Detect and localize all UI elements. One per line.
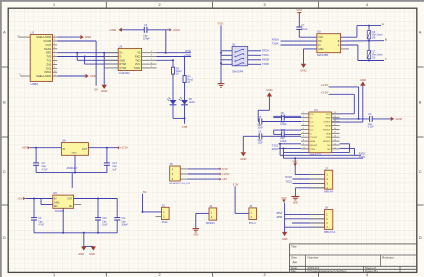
connector U1 bbox=[30, 30, 52, 86]
wire D+ net bbox=[57, 52, 118, 54]
IC U3 CH340G bbox=[118, 44, 141, 75]
capacitor C4 bbox=[143, 24, 150, 40]
capacitor C11 bbox=[114, 199, 128, 233]
svg-text:Cap: Cap bbox=[258, 140, 263, 142]
svg-text:GND: GND bbox=[72, 153, 77, 155]
svg-text:4: 4 bbox=[366, 3, 368, 7]
wire switch right row2 bbox=[248, 54, 261, 56]
svg-text:TXDA: TXDA bbox=[262, 54, 269, 57]
wire loopback upper bbox=[284, 144, 350, 158]
wire R2IN row bbox=[279, 147, 302, 149]
wire J7 pin2 bbox=[293, 178, 325, 180]
svg-text:16: 16 bbox=[334, 128, 336, 130]
wire U5 to net Y bbox=[341, 45, 384, 62]
svg-text:J7: J7 bbox=[325, 166, 328, 170]
power port VCC feeding J7 bbox=[292, 157, 298, 174]
wire EN tie bbox=[41, 199, 53, 205]
svg-text:U8: U8 bbox=[62, 139, 66, 143]
capacitor C7 bbox=[296, 14, 308, 37]
svg-text:SHELL/GND: SHELL/GND bbox=[36, 74, 51, 78]
svg-text:SHELL/GND: SHELL/GND bbox=[36, 35, 51, 39]
net label TXD bbox=[185, 53, 190, 57]
connector J3 bbox=[249, 204, 257, 220]
svg-text:XS2A: XS2A bbox=[162, 221, 169, 224]
svg-text:4: 4 bbox=[303, 124, 304, 126]
connector J6 bbox=[162, 203, 170, 219]
TVS U6 bbox=[367, 31, 383, 40]
capacitor C9 bbox=[333, 113, 391, 129]
svg-text:S1: S1 bbox=[232, 42, 236, 46]
power label VCC at J5 bbox=[220, 172, 230, 176]
svg-text:+3.3V: +3.3V bbox=[321, 90, 329, 94]
svg-text:EN: EN bbox=[54, 205, 58, 208]
svg-text:5V: 5V bbox=[94, 87, 98, 91]
svg-text:5V: 5V bbox=[143, 190, 147, 194]
svg-text:+3.3V: +3.3V bbox=[321, 83, 329, 87]
svg-text:Cap: Cap bbox=[112, 166, 117, 168]
svg-text:D+: D+ bbox=[119, 51, 123, 55]
label AMS1117 part bbox=[67, 166, 79, 170]
capacitor C3 bbox=[31, 199, 45, 233]
wire U5 RO row bbox=[281, 40, 317, 42]
wire J6 stub2 bbox=[156, 216, 162, 218]
svg-text:DI: DI bbox=[318, 44, 321, 47]
svg-text:Cap: Cap bbox=[280, 121, 285, 123]
svg-text:13: 13 bbox=[334, 140, 336, 142]
svg-text:J8: J8 bbox=[325, 206, 328, 210]
svg-text:U4: U4 bbox=[314, 108, 318, 112]
svg-text:GND: GND bbox=[293, 202, 298, 204]
power port feeding J8 bbox=[281, 196, 287, 227]
wire R3 to LED1 bbox=[172, 74, 174, 100]
svg-text:T2OUT: T2OUT bbox=[310, 137, 318, 139]
wire C6 to GND bbox=[242, 136, 244, 152]
svg-text:J6: J6 bbox=[162, 203, 165, 207]
net label Y bbox=[385, 57, 387, 61]
svg-text:B8B-XH-A: B8B-XH-A bbox=[324, 231, 335, 234]
svg-text:10uF: 10uF bbox=[258, 128, 264, 130]
svg-text:VCC: VCC bbox=[318, 36, 323, 39]
power label 5V bbox=[94, 87, 98, 91]
net label TXDB bbox=[262, 63, 269, 66]
connector J4 bbox=[209, 204, 217, 220]
svg-text:RTS#: RTS# bbox=[119, 62, 126, 66]
svg-text:GND: GND bbox=[326, 118, 331, 120]
svg-text:A: A bbox=[3, 31, 6, 35]
label J3 part bbox=[249, 222, 256, 225]
svg-text:TX1: TX1 bbox=[46, 58, 51, 62]
wire to GND arrow lower bbox=[103, 52, 105, 85]
svg-text:104pF: 104pF bbox=[121, 225, 128, 227]
wire RXD net from CH340 bbox=[157, 52, 192, 54]
svg-text:+5V: +5V bbox=[222, 177, 227, 181]
wire U4 left pin stubs bbox=[301, 112, 309, 149]
svg-text:C13: C13 bbox=[112, 162, 117, 165]
svg-text:SW-DIP4: SW-DIP4 bbox=[232, 70, 244, 74]
svg-text:B4B-XH: B4B-XH bbox=[324, 191, 333, 194]
resistor R4 bbox=[183, 76, 194, 84]
wire C7 to U5 VCC pin bbox=[299, 36, 317, 38]
svg-text:B: B bbox=[385, 37, 387, 41]
svg-text:4.7uF: 4.7uF bbox=[38, 225, 44, 227]
svg-text:MAX232: MAX232 bbox=[310, 153, 321, 157]
svg-text:17: 17 bbox=[334, 124, 336, 126]
svg-text:GND: GND bbox=[360, 78, 366, 82]
svg-text:J5: J5 bbox=[170, 162, 173, 166]
wire TXD to R4 bbox=[184, 57, 186, 76]
net label RXD bbox=[185, 49, 191, 53]
svg-text:C1+: C1+ bbox=[310, 114, 315, 116]
svg-text:104pF: 104pF bbox=[280, 124, 287, 126]
svg-text:TXD1: TXD1 bbox=[272, 144, 279, 147]
power port GND below J8 bbox=[282, 227, 288, 241]
svg-text:B: B bbox=[419, 101, 422, 105]
svg-text:RXDA: RXDA bbox=[262, 50, 269, 53]
svg-text:Number: Number bbox=[308, 255, 319, 259]
svg-text:GND: GND bbox=[119, 58, 125, 62]
svg-text:5: 5 bbox=[303, 128, 304, 130]
wire J8 pin2 bbox=[284, 218, 324, 220]
wire 3.3V to U4 vcc bbox=[329, 87, 360, 120]
svg-text:OUT: OUT bbox=[46, 43, 52, 47]
svg-text:TXDB: TXDB bbox=[262, 63, 269, 66]
svg-text:T2IN: T2IN bbox=[310, 149, 315, 151]
wire reg2 ground rail bbox=[34, 232, 117, 234]
net label TXD1 at J7 bbox=[285, 181, 292, 184]
capacitor C13 bbox=[104, 148, 118, 173]
svg-text:Cap: Cap bbox=[280, 138, 285, 140]
svg-text:U9: U9 bbox=[53, 191, 57, 195]
connector J7 bbox=[325, 166, 333, 190]
wire J5 pin2 bbox=[180, 173, 219, 175]
IC U9 XC6206 bbox=[53, 191, 74, 208]
svg-text:Title: Title bbox=[291, 244, 297, 248]
wire D- branch down bbox=[85, 57, 119, 65]
svg-text:NC: NC bbox=[327, 145, 331, 147]
wire J5 pin3 bbox=[180, 178, 219, 180]
svg-text:VCC: VCC bbox=[296, 8, 302, 12]
net label 485B at J8 bbox=[276, 216, 282, 219]
svg-text:OUT: OUT bbox=[67, 198, 73, 201]
wire rail to gnd arrows bbox=[83, 232, 94, 247]
power ground bar below J7 bbox=[291, 197, 299, 205]
wire USB shell to GND bbox=[57, 75, 85, 77]
svg-text:3.3V: 3.3V bbox=[233, 182, 239, 186]
wire reg2 gnd pin down bbox=[62, 208, 64, 233]
svg-text:RXD1: RXD1 bbox=[272, 148, 279, 151]
svg-text:T1OUT: T1OUT bbox=[323, 122, 331, 124]
wire U5 DI row bbox=[281, 44, 317, 46]
svg-text:+VCC: +VCC bbox=[172, 28, 181, 32]
svg-text:V-: V- bbox=[310, 133, 312, 135]
svg-text:TXD: TXD bbox=[217, 22, 223, 26]
svg-text:TXDA: TXDA bbox=[272, 42, 279, 45]
wire U5 GND row bbox=[304, 49, 317, 64]
svg-text:B4-HDR-P-2.54_1X3: B4-HDR-P-2.54_1X3 bbox=[170, 183, 191, 185]
wire CH340 left pin stubs bbox=[105, 53, 119, 68]
svg-text:USB2: USB2 bbox=[31, 82, 39, 86]
svg-text:Cap: Cap bbox=[42, 166, 47, 168]
svg-text:V3: V3 bbox=[137, 51, 141, 55]
svg-text:1uF: 1uF bbox=[112, 169, 117, 171]
svg-text:GND: GND bbox=[110, 28, 118, 32]
svg-text:3.3V: 3.3V bbox=[222, 167, 228, 171]
svg-text:R2OUT: R2OUT bbox=[310, 145, 318, 147]
svg-text:485B: 485B bbox=[276, 216, 282, 219]
power port GND at USB shell bbox=[85, 74, 96, 78]
svg-text:Cap: Cap bbox=[102, 221, 107, 223]
net label RXD1 at J7 bbox=[285, 176, 292, 179]
svg-text:RXDB: RXDB bbox=[262, 59, 269, 62]
svg-text:CH340G: CH340G bbox=[119, 71, 131, 75]
net label RXD1 on loop bbox=[359, 153, 366, 156]
net label RXDB bbox=[262, 59, 269, 62]
svg-text:10uF: 10uF bbox=[258, 143, 264, 145]
svg-text:OX1: OX1 bbox=[46, 66, 52, 70]
label XC6206 part bbox=[55, 209, 65, 213]
svg-text:TXD1: TXD1 bbox=[285, 181, 292, 184]
LED D5 bbox=[179, 97, 196, 104]
net label TXD1 left of U4 bbox=[272, 144, 279, 147]
svg-text:CTS#: CTS# bbox=[119, 66, 126, 70]
label J5 part bbox=[170, 183, 191, 185]
svg-text:R2IN: R2IN bbox=[310, 141, 315, 143]
svg-text:RXDA: RXDA bbox=[272, 38, 279, 41]
svg-text:C: C bbox=[419, 170, 422, 174]
capacitor C10 bbox=[95, 199, 108, 233]
svg-text:RXD: RXD bbox=[135, 54, 141, 58]
svg-text:+VCC: +VCC bbox=[222, 172, 230, 176]
svg-text:LED1: LED1 bbox=[189, 101, 196, 104]
svg-text:J3: J3 bbox=[249, 204, 252, 208]
svg-text:1: 1 bbox=[303, 112, 304, 114]
svg-text:TXD: TXD bbox=[135, 58, 140, 62]
power port GND above U4 right bbox=[360, 78, 366, 86]
svg-text:T2IN: T2IN bbox=[326, 137, 331, 139]
net label TXD1 on loop bbox=[359, 156, 366, 159]
svg-text:6: 6 bbox=[303, 132, 304, 134]
svg-text:MAX485: MAX485 bbox=[317, 53, 328, 57]
net label RXD1 left of U4 bbox=[272, 148, 279, 151]
wire U5 pin stub right bbox=[341, 48, 349, 50]
svg-text:15: 15 bbox=[334, 132, 336, 134]
label J7 part bbox=[324, 191, 333, 194]
svg-text:19: 19 bbox=[334, 116, 336, 118]
wire switch left stubs bbox=[221, 51, 232, 65]
svg-text:Y: Y bbox=[385, 57, 387, 61]
power label 3.3V at J3 bbox=[233, 182, 239, 186]
wire GND bar to U4 row4 bbox=[332, 86, 363, 122]
svg-text:Revision: Revision bbox=[382, 255, 394, 259]
net label 485A at J8 bbox=[276, 212, 282, 215]
svg-text:TXD1: TXD1 bbox=[359, 156, 366, 159]
svg-text:ZX0: ZX0 bbox=[46, 62, 51, 66]
svg-text:GND: GND bbox=[193, 235, 198, 237]
svg-text:R2OUT: R2OUT bbox=[323, 141, 331, 143]
wire D+ branch down bbox=[77, 53, 118, 61]
svg-text:NC: NC bbox=[327, 149, 331, 151]
svg-text:10uF: 10uF bbox=[102, 225, 108, 227]
wire J4 to GND bbox=[196, 213, 209, 228]
power port GND below C7 bbox=[300, 64, 306, 73]
svg-text:GND: GND bbox=[101, 89, 107, 93]
net label B bbox=[385, 37, 387, 41]
svg-text:8: 8 bbox=[303, 140, 304, 142]
label J8 part bbox=[324, 231, 335, 234]
svg-text:485A: 485A bbox=[276, 212, 282, 215]
svg-text:Drawn By:: Drawn By: bbox=[365, 269, 379, 273]
svg-text:10: 10 bbox=[303, 147, 305, 149]
wire J8 pin3 bbox=[292, 222, 325, 224]
wire CH340 right pin stubs bbox=[142, 51, 157, 68]
wire R4 to LED2 bbox=[184, 83, 186, 101]
net label TXD at switch bbox=[217, 22, 223, 26]
svg-text:IN: IN bbox=[63, 148, 66, 151]
svg-text:VTB: VTB bbox=[182, 125, 188, 129]
svg-text:GND: GND bbox=[396, 117, 402, 121]
svg-text:1: 1 bbox=[53, 273, 55, 277]
power label VCC above U5 bbox=[296, 8, 302, 14]
wire reg1 ground rail bbox=[36, 172, 107, 188]
wire D- net bbox=[57, 56, 118, 58]
svg-text:GND: GND bbox=[240, 157, 246, 161]
svg-text:GND: GND bbox=[85, 35, 91, 39]
power label 3.3V at J5 bbox=[220, 167, 228, 171]
power port GND above U4 left bbox=[266, 88, 272, 97]
svg-text:T1IN: T1IN bbox=[326, 133, 331, 135]
power label +VCC bbox=[169, 28, 181, 32]
svg-text:RXD1: RXD1 bbox=[285, 176, 292, 179]
wire reg1 gnd pin bbox=[74, 155, 76, 172]
wire GND to C4 bbox=[122, 29, 144, 31]
svg-text:3: 3 bbox=[263, 3, 265, 7]
wire CH340 pin to R3 bbox=[157, 59, 175, 67]
svg-text:J4: J4 bbox=[209, 204, 212, 208]
capacitor C12 lower bbox=[274, 129, 301, 143]
svg-text:Cap: Cap bbox=[38, 221, 43, 223]
svg-text:C2-: C2- bbox=[310, 129, 314, 131]
power port GND below USB wires bbox=[101, 85, 107, 93]
svg-text:1K: 1K bbox=[176, 73, 179, 76]
wire LEDs to VTB bbox=[173, 105, 186, 124]
svg-text:U3: U3 bbox=[119, 44, 123, 48]
wire 3.3V lower to U4 bbox=[329, 94, 355, 114]
wire USB shell bottom pin bbox=[19, 74, 31, 76]
svg-text:OUT: OUT bbox=[82, 148, 88, 151]
IC U8 AMS1117 bbox=[61, 139, 88, 156]
header J5 bbox=[170, 162, 181, 181]
svg-text:14: 14 bbox=[334, 136, 336, 138]
svg-text:2: 2 bbox=[158, 3, 160, 7]
wire VBUS from U1 bbox=[57, 41, 96, 86]
svg-text:4: 4 bbox=[366, 273, 368, 277]
svg-text:C1-: C1- bbox=[310, 122, 314, 124]
svg-text:SD6004: SD6004 bbox=[206, 222, 215, 225]
connector J8 bbox=[325, 206, 333, 230]
wire 5V to reg2 bbox=[25, 198, 52, 200]
wire J8 pin4 bbox=[285, 226, 325, 228]
wire GND to cap C5 bbox=[258, 97, 269, 122]
svg-text:4.7uF: 4.7uF bbox=[42, 169, 48, 171]
wire C4 to VCC bbox=[147, 30, 169, 53]
svg-text:12: 12 bbox=[334, 143, 336, 145]
wire reg2 nc stub bbox=[74, 204, 82, 206]
svg-text:2: 2 bbox=[158, 273, 160, 277]
wire J7 pin1 bbox=[295, 174, 325, 176]
wire TXD net from CH340 bbox=[157, 56, 192, 58]
power port GND below C6 bbox=[240, 152, 246, 161]
net label RXDA at U5 bbox=[272, 38, 279, 41]
svg-text:GND: GND bbox=[54, 201, 60, 204]
TVS U7 bbox=[367, 51, 383, 60]
svg-text:D:\Users\Desktop\sch.SchDoc: D:\Users\Desktop\sch.SchDoc bbox=[308, 269, 347, 273]
svg-text:B: B bbox=[3, 101, 6, 105]
svg-text:U1: U1 bbox=[31, 30, 35, 34]
svg-text:2: 2 bbox=[303, 116, 304, 118]
power port GND at U1 pin1 bbox=[57, 35, 91, 39]
svg-text:D: D bbox=[419, 236, 422, 240]
power port GND left of C4 bbox=[110, 28, 122, 32]
svg-text:D-: D- bbox=[119, 54, 122, 58]
svg-text:VCC: VCC bbox=[292, 160, 298, 164]
svg-text:VCOM: VCOM bbox=[43, 39, 52, 43]
svg-text:GND: GND bbox=[78, 252, 84, 256]
label J6 part bbox=[162, 221, 169, 224]
wire switch right row3 bbox=[248, 59, 261, 61]
svg-text:C2+: C2+ bbox=[310, 126, 315, 128]
power port GND pair right bbox=[89, 246, 96, 256]
svg-text:Cap: Cap bbox=[368, 124, 373, 126]
wire 5V to reg1 bbox=[30, 147, 62, 149]
svg-text:VCC: VCC bbox=[281, 196, 287, 200]
svg-text:U5: U5 bbox=[317, 30, 321, 34]
wire loopback lower bbox=[284, 157, 364, 159]
power ground bar below switch bbox=[218, 84, 225, 88]
svg-text:A: A bbox=[419, 31, 422, 35]
capacitor C2 bbox=[33, 148, 48, 173]
wire 3.3V to J3 bbox=[235, 186, 249, 213]
svg-text:BT1-A: BT1-A bbox=[249, 222, 256, 225]
svg-text:20: 20 bbox=[334, 112, 336, 114]
wire switch right row4 bbox=[248, 63, 261, 65]
power ground bar below J4 bbox=[193, 229, 200, 237]
wire TVS bus vertical bbox=[368, 26, 370, 61]
svg-text:D: D bbox=[3, 236, 6, 240]
power label +5V at reg2 bbox=[17, 197, 25, 201]
wire J7 pin3 bbox=[293, 182, 325, 184]
wire J8 pin stubs bbox=[309, 215, 325, 228]
wire reg1 out to 3.3V bbox=[88, 147, 119, 149]
IC U4 MAX232 bbox=[309, 108, 332, 157]
wire U5 to net B bbox=[341, 40, 384, 42]
svg-text:104pF: 104pF bbox=[143, 37, 150, 40]
wire J8 pin1 bbox=[284, 214, 324, 216]
svg-text:File:: File: bbox=[291, 269, 297, 273]
wire 5V to J6 bbox=[142, 194, 162, 213]
svg-text:Cap: Cap bbox=[258, 125, 263, 127]
net label RXDA bbox=[262, 50, 269, 53]
svg-text:1: 1 bbox=[53, 3, 55, 7]
svg-text:TX0: TX0 bbox=[46, 55, 51, 59]
svg-text:A4: A4 bbox=[293, 261, 297, 265]
svg-text:0.1uF: 0.1uF bbox=[368, 127, 374, 129]
LED D4 bbox=[167, 97, 176, 104]
svg-text:SGN1: SGN1 bbox=[44, 47, 52, 51]
net label TXDA bbox=[262, 54, 269, 57]
svg-text:+5V: +5V bbox=[17, 197, 22, 201]
svg-text:GND: GND bbox=[282, 237, 288, 241]
title block bbox=[289, 244, 416, 273]
